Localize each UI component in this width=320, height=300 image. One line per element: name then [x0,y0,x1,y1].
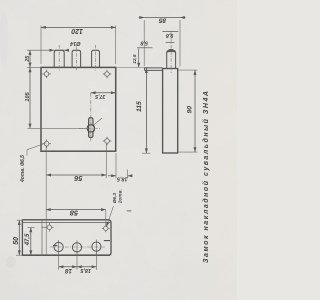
screw hole bottom-left [42,139,51,148]
dim 105 ext to keyhole [28,127,87,129]
dim 50 bottom ext [16,254,22,256]
stud 3 [92,50,100,67]
svg-text:105: 105 [25,91,31,101]
body top edge ext [27,66,41,68]
svg-text:Ø14: Ø14 [70,40,80,46]
dim 5.8 line [137,47,153,49]
bend line [41,220,43,255]
stud 2 [72,50,81,67]
dim 50 top ext [17,219,24,221]
svg-text:90: 90 [187,106,194,114]
bolt protrusion [145,67,163,69]
dim 85 ext lines [143,20,145,66]
screw hole top-right [103,70,112,79]
projection line left [45,147,47,256]
dim 56 right ext [105,144,107,178]
bottom dim ext lines [58,253,60,270]
plate bottom thick edge [22,254,110,256]
svg-text:50: 50 [13,237,20,245]
dim 18.5b line [77,266,96,268]
dim 37.5 line [91,92,116,94]
dim 18.5 line [108,175,116,177]
svg-text:Замок накладной сувальдный ЗН4: Замок накладной сувальдный ЗН4А [202,91,210,263]
svg-text:120: 120 [71,27,83,34]
side stud dark cap [167,49,176,53]
dim 115 bottom ext [142,152,151,154]
paper smudge bottom-left [6,256,16,268]
small hole right [102,224,110,232]
dim 18.5 ext [115,153,117,179]
svg-text:47,5: 47,5 [25,233,31,246]
svg-text:37,5: 37,5 [95,93,105,99]
dash right of leader [127,210,132,212]
svg-text:2отв.: 2отв. [117,189,123,204]
keyhole [89,118,95,138]
circle 1 [54,240,63,254]
dim 12.5 ext [116,67,149,69]
svg-text:18: 18 [65,267,72,274]
keyhole leader [94,118,102,125]
svg-text:25: 25 [25,56,31,63]
side stud [167,51,176,69]
dim 56 line [46,174,106,176]
dim 90 ext lines [179,69,198,71]
svg-text:56: 56 [73,174,82,183]
dim 120 ext lines [40,26,42,65]
dim 12.5 line [138,49,140,68]
dim 47.5 line [30,228,32,256]
plate inner top line [22,222,110,224]
svg-text:5,8: 5,8 [140,39,148,45]
dim 120 line [41,26,116,28]
circle 2 [72,240,81,254]
svg-text:12,5: 12,5 [132,54,138,64]
screw hole top-left [42,70,51,79]
leader d6.3 line [106,206,113,227]
svg-text:85: 85 [159,17,167,24]
dim 47.5 top ext [28,227,35,229]
dim 105 line [29,67,31,128]
small hole left [41,223,53,232]
paper background [0,0,237,300]
plate outer [22,220,111,256]
dim 25 line [29,50,31,67]
svg-text:9,8: 9,8 [166,32,174,38]
dash left of c1 [53,245,57,247]
side stud centerline [170,32,172,74]
dim 85 line [139,17,145,19]
dim 90 line [194,70,196,152]
dim 18 line [59,266,77,268]
body rect [41,67,116,151]
dim 58 line [46,209,106,211]
screw hole bottom-right [103,137,112,146]
dim d14 line [27,49,54,51]
dash right of c3 [104,240,110,242]
keyhole centerlines [90,93,92,142]
svg-text:Ø6,3: Ø6,3 [112,193,118,204]
svg-text:18,5: 18,5 [79,267,90,273]
svg-text:4отв. Ф6,5: 4отв. Ф6,5 [20,155,26,183]
svg-text:58: 58 [69,209,78,218]
circle 3 [92,240,101,254]
dim 58 right ext [105,210,107,226]
dim 115 line [145,68,147,153]
side rect [163,69,178,154]
svg-text:115: 115 [136,101,143,112]
stud 1 [54,50,64,67]
svg-text:18,5: 18,5 [116,176,127,182]
dim 9.8 lines [162,31,178,33]
bottom circles centerline [50,246,105,248]
dim 50 line [18,220,20,255]
leader 4otv d6.5 [27,143,46,150]
